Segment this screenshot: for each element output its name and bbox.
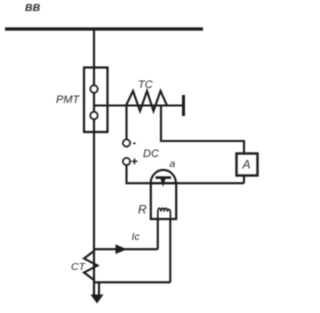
relay coil winding [158, 208, 171, 219]
trip circuit end bar [182, 95, 185, 116]
DC minus terminal [123, 140, 130, 147]
wire from TC branch down to DC minus terminal [125, 106, 127, 140]
DC plus terminal [123, 158, 130, 165]
breaker contact lower circle [90, 112, 97, 119]
wire feeder vertical from busbar through PMT down to CT [93, 29, 95, 296]
wire from ammeter bottom down to contact wire [243, 176, 245, 184]
wire DC plus rail through contact a to ammeter [127, 165, 245, 184]
svg-text:DC: DC [143, 148, 159, 160]
ammeter A box [237, 154, 258, 176]
Ic arrowhead [116, 244, 128, 254]
wire return from relay to ground node [94, 281, 170, 283]
breaker contact upper circle [90, 85, 97, 92]
svg-text:a: a [170, 158, 176, 170]
trip coil TC zigzag [126, 91, 167, 111]
wire relay right leg [169, 219, 171, 282]
plus sign [132, 158, 138, 164]
wire relay left leg [157, 219, 159, 249]
svg-text:BB: BB [25, 2, 41, 14]
wire from TC right side down and across to ammeter top [161, 106, 244, 154]
wire feeder to ground [93, 279, 95, 296]
wire trip-coil branch horizontal [94, 104, 183, 106]
svg-text:CT: CT [71, 261, 87, 273]
contact a tip notch [160, 179, 165, 188]
relay R box [151, 183, 176, 219]
wire Ic from feeder to relay [94, 248, 158, 250]
contact a moving bar [156, 176, 172, 179]
busbar BB [5, 27, 203, 30]
ground arrow [91, 295, 104, 304]
current transformer CT zigzag [84, 251, 98, 280]
minus sign [133, 142, 136, 144]
svg-text:R: R [138, 203, 147, 217]
svg-text:PMT: PMT [56, 94, 81, 106]
svg-text:Ic: Ic [132, 231, 141, 243]
svg-text:TC: TC [138, 79, 153, 91]
relay contact a dome [151, 170, 176, 183]
breaker PMT box [84, 68, 108, 133]
svg-text:A: A [242, 158, 251, 172]
wire return drop to ground [98, 282, 100, 295]
